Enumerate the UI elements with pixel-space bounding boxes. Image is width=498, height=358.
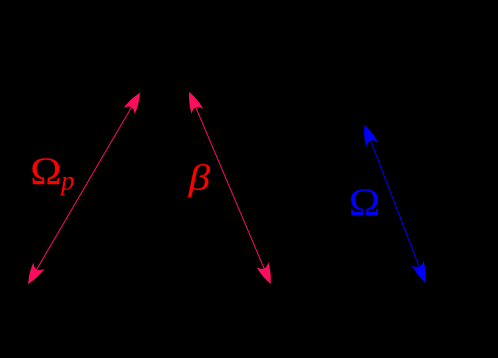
- wire: Omega spin axis double arrow (blue): [365, 125, 426, 282]
- svg-text:β: β: [188, 158, 211, 197]
- wire: beta axis double arrow (pink): [189, 92, 270, 284]
- wire: omega_p precession axis double arrow (pink): [28, 93, 140, 284]
- svg-text:Ω: Ω: [30, 149, 61, 192]
- svg-text:p: p: [59, 166, 75, 196]
- svg-text:Ω: Ω: [349, 180, 380, 223]
